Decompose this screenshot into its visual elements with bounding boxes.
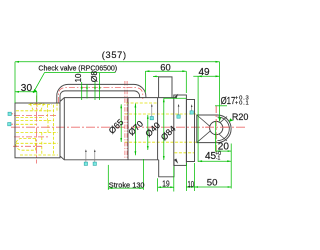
svg-text:50: 50 [207,177,218,188]
svg-text:19: 19 [162,179,169,189]
svg-text:+0.1: +0.1 [235,100,250,106]
svg-text:Check valve (RPC06500): Check valve (RPC06500) [38,64,117,72]
svg-text:30: 30 [21,83,33,94]
svg-text:-1: -1 [216,156,221,162]
svg-text:10: 10 [74,73,83,82]
svg-text:10: 10 [188,180,195,189]
svg-text:49: 49 [199,67,211,78]
svg-text:Ø17: Ø17 [221,95,236,106]
svg-text:60: 60 [160,62,170,73]
svg-text:Stroke 130: Stroke 130 [109,180,145,189]
svg-text:R20: R20 [232,112,249,122]
svg-text:(357): (357) [102,50,127,60]
svg-text:Ø8: Ø8 [89,71,99,83]
